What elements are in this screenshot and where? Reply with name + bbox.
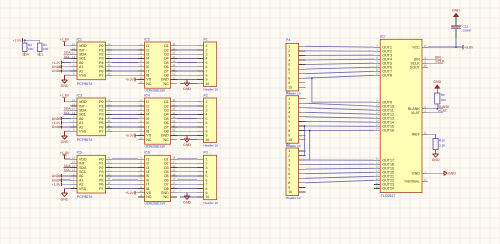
- svg-text:IREF: IREF: [412, 133, 421, 137]
- svg-text:NC: NC: [146, 195, 152, 199]
- svg-text:1: 1: [288, 45, 290, 49]
- svg-text:GND: GND: [412, 172, 420, 176]
- svg-text:NC: NC: [163, 195, 169, 199]
- svg-text:VCC: VCC: [412, 45, 420, 49]
- svg-text:8: 8: [288, 77, 290, 81]
- svg-text:SCL: SCL: [37, 53, 44, 57]
- svg-text:GND: GND: [61, 140, 69, 144]
- svg-text:SCLK: SCLK: [435, 60, 445, 64]
- svg-text:+1.8V: +1.8V: [60, 94, 70, 98]
- svg-text:VSS: VSS: [79, 74, 87, 78]
- svg-text:7: 7: [288, 72, 290, 76]
- svg-text:SOUT: SOUT: [410, 66, 421, 70]
- svg-text:2: 2: [288, 49, 290, 53]
- svg-text:TLC5947: TLC5947: [381, 194, 395, 198]
- svg-text:SDA: SDA: [22, 53, 30, 57]
- svg-text:GND: GND: [432, 158, 440, 162]
- svg-text:4: 4: [288, 111, 290, 115]
- svg-text:10: 10: [288, 86, 292, 90]
- svg-text:GND: GND: [61, 84, 69, 88]
- svg-text:7: 7: [288, 124, 290, 128]
- svg-text:Header 10: Header 10: [286, 196, 301, 200]
- svg-text:10: 10: [206, 138, 210, 142]
- svg-text:5: 5: [288, 115, 290, 119]
- svg-text:XLAT: XLAT: [411, 111, 421, 115]
- svg-text:8: 8: [288, 181, 290, 185]
- svg-text:+5.0V: +5.0V: [125, 191, 135, 195]
- svg-text:THERMAL: THERMAL: [404, 180, 420, 184]
- svg-text:3: 3: [288, 106, 290, 110]
- svg-text:VSS: VSS: [79, 187, 87, 191]
- svg-text:10K: 10K: [43, 47, 49, 51]
- svg-text:100nF: 100nF: [463, 29, 472, 33]
- svg-text:P3: P3: [204, 151, 208, 155]
- svg-text:P7: P7: [99, 187, 103, 191]
- svg-text:3: 3: [288, 158, 290, 162]
- svg-text:+5.0V: +5.0V: [125, 78, 135, 82]
- svg-text:SCL: SCL: [64, 111, 71, 115]
- svg-text:Header 10: Header 10: [204, 201, 219, 205]
- svg-text:IC6: IC6: [144, 151, 150, 155]
- svg-text:IC1: IC1: [77, 37, 83, 41]
- svg-text:OUT16: OUT16: [382, 129, 394, 133]
- svg-text:3: 3: [288, 54, 290, 58]
- svg-text:+1.8V: +1.8V: [13, 38, 23, 42]
- svg-text:+1.8V: +1.8V: [60, 151, 70, 155]
- svg-text:GND: GND: [183, 200, 191, 204]
- svg-text:3.3K: 3.3K: [439, 144, 446, 148]
- svg-text:SCL: SCL: [64, 168, 71, 172]
- svg-text:UDN2981LW: UDN2981LW: [145, 144, 166, 148]
- svg-text:10: 10: [206, 195, 210, 199]
- svg-text:10K: 10K: [441, 98, 447, 102]
- svg-text:IC2: IC2: [144, 37, 150, 41]
- svg-text:7: 7: [288, 177, 290, 181]
- svg-text:+5.0V: +5.0V: [464, 45, 474, 49]
- svg-text:GND: GND: [183, 143, 191, 147]
- svg-text:P4: P4: [286, 38, 290, 42]
- svg-text:1: 1: [288, 149, 290, 153]
- svg-text:10: 10: [206, 82, 210, 86]
- svg-text:R10: R10: [439, 139, 445, 143]
- svg-text:5: 5: [288, 167, 290, 171]
- svg-text:5: 5: [288, 63, 290, 67]
- svg-text:GND: GND: [433, 80, 441, 84]
- svg-text:PCF8574: PCF8574: [77, 195, 92, 199]
- svg-text:VSS: VSS: [79, 130, 87, 134]
- svg-text:Header 10: Header 10: [204, 88, 219, 92]
- svg-text:GND: GND: [452, 9, 460, 13]
- svg-text:GND: GND: [52, 125, 60, 129]
- svg-text:6: 6: [288, 67, 290, 71]
- svg-text:+1.8V: +1.8V: [52, 183, 62, 187]
- svg-text:SCL: SCL: [64, 55, 71, 59]
- svg-text:GND: GND: [448, 172, 456, 176]
- svg-text:P1: P1: [204, 37, 208, 41]
- svg-text:8: 8: [288, 129, 290, 133]
- svg-text:PCF8574: PCF8574: [77, 82, 92, 86]
- svg-text:IC4: IC4: [144, 93, 150, 97]
- svg-text:9: 9: [288, 81, 290, 85]
- svg-text:IC7: IC7: [380, 35, 386, 39]
- svg-text:9: 9: [288, 133, 290, 137]
- svg-text:UDN2981LW: UDN2981LW: [145, 88, 166, 92]
- svg-text:IC5: IC5: [77, 151, 83, 155]
- svg-text:+1.8V: +1.8V: [60, 38, 70, 42]
- svg-text:1: 1: [288, 97, 290, 101]
- svg-text:R9: R9: [441, 93, 445, 97]
- svg-text:P7: P7: [99, 130, 103, 134]
- svg-text:XLAT: XLAT: [438, 109, 448, 113]
- svg-text:PCF8574: PCF8574: [77, 138, 92, 142]
- svg-text:GND: GND: [61, 198, 69, 202]
- svg-text:4: 4: [288, 58, 290, 62]
- svg-text:UDN2981LW: UDN2981LW: [145, 202, 166, 206]
- svg-text:10K: 10K: [28, 47, 34, 51]
- svg-text:OUT24: OUT24: [382, 187, 394, 191]
- svg-text:Header 10: Header 10: [204, 144, 219, 148]
- svg-text:2: 2: [288, 102, 290, 106]
- svg-text:+5.0V: +5.0V: [125, 134, 135, 138]
- svg-text:OUT8: OUT8: [382, 74, 392, 78]
- svg-text:P6: P6: [286, 143, 290, 147]
- svg-text:P5: P5: [286, 91, 290, 95]
- svg-text:P7: P7: [99, 74, 103, 78]
- svg-text:GND: GND: [183, 87, 191, 91]
- svg-text:NC: NC: [146, 138, 152, 142]
- svg-text:9: 9: [288, 186, 290, 190]
- svg-text:GND: GND: [52, 69, 60, 73]
- svg-text:6: 6: [288, 120, 290, 124]
- svg-text:10: 10: [288, 190, 292, 194]
- svg-text:4: 4: [288, 163, 290, 167]
- svg-text:NC: NC: [163, 82, 169, 86]
- svg-text:6: 6: [288, 172, 290, 176]
- svg-text:P2: P2: [204, 93, 208, 97]
- svg-text:IC3: IC3: [77, 93, 83, 97]
- svg-text:NC: NC: [146, 82, 152, 86]
- svg-text:2: 2: [288, 154, 290, 158]
- svg-text:10: 10: [288, 138, 292, 142]
- svg-text:NC: NC: [163, 138, 169, 142]
